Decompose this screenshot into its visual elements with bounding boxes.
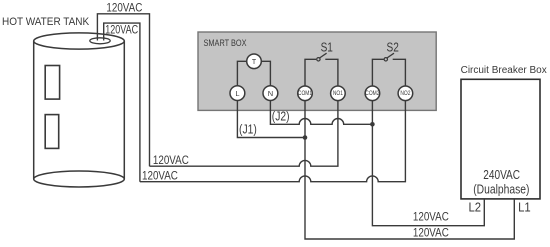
svg-text:(J1): (J1) [239,124,257,137]
svg-text:HOT WATER TANK: HOT WATER TANK [2,16,89,29]
svg-text:120VAC: 120VAC [153,154,189,167]
wire stubs inside fitting [97,37,103,41]
switch S2 pivot [384,58,387,61]
switch S1 blade [320,53,327,58]
wire: tank hot lead up and over (outer run) [97,14,149,166]
terminal COM2 [365,86,380,101]
svg-text:L2: L2 [469,200,482,215]
svg-text:S2: S2 [387,42,399,55]
svg-text:120VAC: 120VAC [142,170,178,183]
smart box U1 enclosure [198,32,436,110]
circuit breaker box enclosure [461,79,540,199]
hot water tank body [34,41,125,179]
svg-text:120VAC: 120VAC [106,2,142,15]
svg-text:120VAC: 120VAC [413,227,449,240]
svg-text:NO2: NO2 [400,91,410,98]
terminal T [247,54,262,69]
terminal L [230,86,245,101]
svg-text:COM1: COM1 [298,91,312,98]
svg-text:(Dualphase): (Dualphase) [473,184,529,197]
wire: tank second lead (inner run) [104,23,140,182]
wire: 120VAC run to NO1 (hop over COM1) [150,101,338,167]
svg-text:240VAC: 240VAC [483,169,520,182]
switch S2 [372,59,405,86]
wire: COM2 down to L2 [372,100,484,225]
svg-text:(J2): (J2) [272,111,290,124]
svg-text:T: T [252,59,257,66]
tank top fitting [90,38,110,44]
upper heating element panel [45,66,59,100]
svg-text:COM2: COM2 [365,91,379,98]
terminal NO2 [398,86,413,101]
svg-text:L1: L1 [518,200,531,215]
svg-text:120VAC: 120VAC [413,211,449,224]
terminal COM1 [298,86,313,101]
terminal N [263,86,278,101]
svg-text:L: L [235,89,239,98]
switch S1 [305,59,338,86]
switch S2 blade [387,53,394,58]
svg-text:S1: S1 [321,42,333,55]
wire: 120VAC run to NO2 (hops over COM1 and COM2) [140,101,406,182]
lower heating element panel [45,115,59,149]
terminal NO1 [331,86,346,101]
tank top ellipse [34,33,125,49]
junction dot at COM1/J1 [303,135,308,140]
wire: COM1 down to L1 [305,100,514,239]
junction dot at COM2/J2 [370,122,375,127]
wire J2: N terminal to COM2 (hops over COM1 and NO1) [270,100,372,124]
svg-text:SMART BOX: SMART BOX [204,37,247,48]
switch S1 pivot [317,58,320,61]
wire J1: L terminal to COM1 [237,100,305,137]
tank bottom ellipse [34,171,125,187]
thermostat T link wire [237,61,270,85]
svg-text:N: N [268,89,273,98]
svg-text:NO1: NO1 [333,91,343,98]
svg-text:Circuit Breaker Box: Circuit Breaker Box [461,65,547,76]
svg-text:120VAC: 120VAC [105,23,138,37]
